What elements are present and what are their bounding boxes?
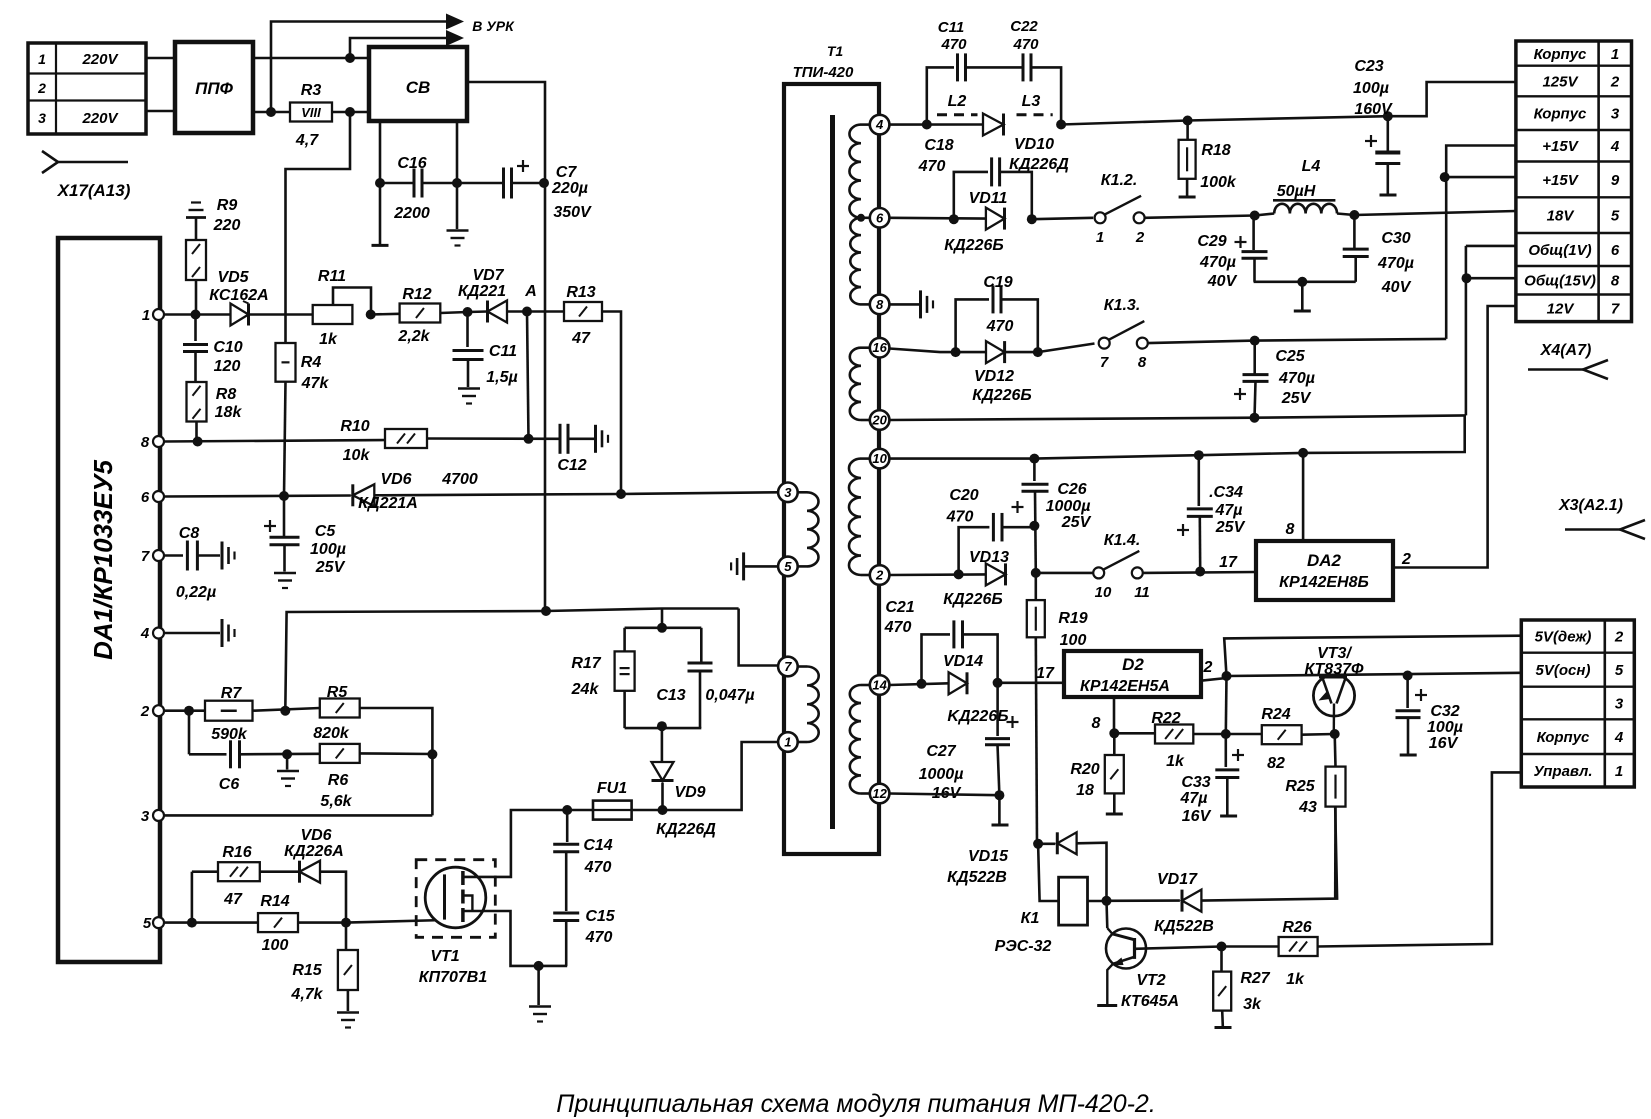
- svg-text:РЭС-32: РЭС-32: [995, 938, 1052, 955]
- transistor VT3 KT837F: [1313, 675, 1354, 716]
- svg-text:470µ: 470µ: [1199, 254, 1236, 271]
- wire VD13 to K1.4: [1036, 572, 1093, 575]
- connector X4(A7) table: [1516, 41, 1632, 322]
- svg-text:6: 6: [1611, 242, 1620, 259]
- wire SV right output down to node rail: [467, 82, 545, 611]
- wire R10 to C12: [427, 437, 560, 440]
- svg-text:C18: C18: [924, 137, 953, 154]
- connector X3(A2.1) table: [1521, 620, 1634, 787]
- node C25 bottom junction: [1250, 413, 1260, 423]
- node +15V pin9 tee: [1440, 172, 1450, 182]
- svg-text:КД226Б: КД226Б: [944, 237, 1003, 254]
- svg-text:FU1: FU1: [597, 780, 627, 797]
- svg-text:КР142ЕН8Б: КР142ЕН8Б: [1279, 574, 1369, 591]
- svg-text:100µ: 100µ: [310, 541, 346, 558]
- svg-text:R26: R26: [1282, 919, 1311, 936]
- svg-text:DA2: DA2: [1307, 551, 1342, 570]
- svg-text:125V: 125V: [1542, 74, 1579, 91]
- svg-text:5V(деж): 5V(деж): [1535, 629, 1592, 646]
- node VD15 junction: [1033, 839, 1043, 849]
- svg-text:C23: C23: [1354, 58, 1383, 75]
- capacitor C11 1.5u: [466, 312, 469, 347]
- node C19 left junction: [951, 347, 961, 357]
- connector X3 plug symbol: [1565, 528, 1620, 531]
- T1 pin 16: [870, 338, 890, 358]
- svg-text:ТПИ-420: ТПИ-420: [793, 64, 854, 81]
- wire VD14 to D2: [998, 681, 1064, 684]
- node relay/VT2 junction: [1102, 896, 1112, 906]
- svg-text:470: 470: [585, 929, 613, 946]
- wire pin8 to sideways ground: [889, 303, 919, 306]
- T1 secondary winding 4-6-8: [861, 123, 870, 126]
- node C27 bottom junction: [994, 790, 1004, 800]
- wire R12 to VD7: [440, 312, 467, 313]
- svg-text:160V: 160V: [1354, 101, 1393, 118]
- DA1 IC box KR1033EU5: [58, 238, 160, 962]
- svg-text:4: 4: [1610, 138, 1620, 155]
- inductor L4: [1255, 214, 1275, 216]
- capacitor C21 snubber: [922, 634, 951, 683]
- svg-text:R20: R20: [1070, 761, 1099, 778]
- svg-text:220: 220: [213, 217, 241, 234]
- svg-text:DA1/КР1033ЕУ5: DA1/КР1033ЕУ5: [88, 460, 118, 660]
- svg-text:1: 1: [1615, 763, 1623, 780]
- resistor R16: [218, 862, 260, 881]
- resistor R3: [290, 103, 332, 122]
- VT1 source wire: [463, 911, 567, 966]
- svg-text:X3(А2.1): X3(А2.1): [1558, 497, 1623, 514]
- svg-text:100: 100: [262, 937, 289, 954]
- capacitor C22 bypass: [1022, 53, 1025, 81]
- resistor R26: [1222, 945, 1279, 948]
- wire L4 to 18V pin: [1354, 211, 1516, 215]
- node C18 junction: [922, 120, 932, 130]
- wire pin6 row right: [889, 217, 986, 220]
- wire pin12 row: [889, 794, 999, 796]
- svg-text:К1.3.: К1.3.: [1104, 297, 1141, 314]
- wire pin1 row: [164, 313, 231, 316]
- wire 5Vosn rail: [1227, 673, 1522, 676]
- resistor R10: [385, 429, 427, 448]
- svg-text:.C34: .C34: [1209, 484, 1243, 501]
- svg-text:C11: C11: [489, 343, 517, 360]
- node VD12 right junction: [1033, 347, 1043, 357]
- node A: [522, 307, 532, 317]
- svg-text:220µ: 220µ: [551, 180, 588, 197]
- wire D2 output: [1201, 678, 1227, 681]
- svg-text:3: 3: [1611, 106, 1620, 123]
- svg-text:VD11: VD11: [969, 190, 1008, 207]
- svg-text:КТ837Ф: КТ837Ф: [1305, 661, 1365, 678]
- node R3 left junction: [266, 107, 276, 117]
- svg-text:СВ: СВ: [406, 78, 431, 97]
- node Obshch 15V tee: [1462, 273, 1472, 283]
- T1 pin 20: [870, 410, 890, 430]
- pin 5 of DA1: [153, 917, 164, 928]
- svg-text:C20: C20: [949, 487, 978, 504]
- T1 secondary winding 10-2: [861, 457, 870, 460]
- svg-text:12V: 12V: [1547, 301, 1576, 318]
- inductor L3 dashed: [1017, 113, 1053, 116]
- svg-text:C5: C5: [315, 523, 337, 540]
- pin 8 of DA1: [153, 436, 164, 447]
- svg-text:C7: C7: [556, 164, 578, 181]
- svg-text:R19: R19: [1058, 610, 1087, 627]
- svg-text:L3: L3: [1022, 93, 1041, 110]
- svg-text:8: 8: [1092, 715, 1101, 732]
- svg-text:2: 2: [875, 568, 884, 583]
- capacitor C8: [164, 554, 183, 557]
- svg-text:VD12: VD12: [974, 368, 1014, 385]
- resistor R20: [1105, 755, 1124, 793]
- wire DA2 pin8 riser: [1298, 448, 1308, 458]
- svg-text:470: 470: [918, 158, 946, 175]
- node D2 output junction: [1222, 671, 1232, 681]
- svg-text:20: 20: [871, 413, 887, 428]
- resistor R4: [276, 343, 296, 382]
- wire pin6 row to xfmr pin3: [164, 496, 351, 497]
- svg-text:8: 8: [1286, 521, 1295, 538]
- wire DA2 output 2 to 12V pin: [1393, 306, 1516, 568]
- resistor R18: [1186, 121, 1189, 140]
- svg-text:470: 470: [1012, 36, 1039, 53]
- chassis bar under C16 left: [379, 183, 382, 244]
- svg-text:C30: C30: [1381, 230, 1410, 247]
- svg-text:9: 9: [1611, 172, 1620, 189]
- diode VD17 KD522V: [1107, 899, 1180, 902]
- svg-text:Корпус: Корпус: [1534, 106, 1587, 123]
- switch contact K1.2: [1095, 212, 1106, 223]
- svg-text:82: 82: [1267, 755, 1285, 772]
- wire R13 down to xfmr pin3 row: [602, 312, 621, 495]
- svg-text:ППФ: ППФ: [195, 79, 233, 98]
- resistor R17: [623, 628, 626, 652]
- svg-text:C27: C27: [926, 743, 956, 760]
- svg-text:VT2: VT2: [1136, 972, 1165, 989]
- node VD9 bottom junction: [658, 805, 668, 815]
- node R27 junction: [1217, 942, 1227, 952]
- svg-text:1000µ: 1000µ: [1046, 498, 1091, 515]
- wire to VT1 gate: [346, 920, 445, 923]
- svg-text:VD5: VD5: [217, 269, 249, 286]
- ground above R9 (inverted): [191, 201, 201, 203]
- svg-text:R9: R9: [217, 197, 238, 214]
- node D2 pin8 junction: [1113, 697, 1116, 733]
- block PPF mains filter: [175, 42, 253, 133]
- svg-text:40V: 40V: [1207, 273, 1238, 290]
- svg-text:КД221: КД221: [458, 283, 506, 300]
- svg-text:350V: 350V: [553, 204, 592, 221]
- capacitor C19 snubber: [956, 299, 989, 352]
- node R7/R5 junction: [280, 706, 290, 716]
- svg-text:8: 8: [1138, 354, 1147, 371]
- node VD14 right junction: [993, 678, 1003, 688]
- C29/C30 ground rail: [1254, 280, 1356, 283]
- svg-text:VD15: VD15: [968, 848, 1009, 865]
- capacitor C26 electrolytic: [1029, 454, 1039, 464]
- capacitor C20 snubber: [959, 527, 990, 574]
- wire pin4 row: [889, 123, 983, 126]
- wire pin3 row: [164, 814, 432, 817]
- resistor R8: [187, 382, 207, 422]
- svg-text:Общ(1V): Общ(1V): [1528, 242, 1591, 259]
- svg-text:1000µ: 1000µ: [919, 766, 964, 783]
- svg-text:C32: C32: [1430, 703, 1459, 720]
- svg-text:4: 4: [875, 117, 884, 132]
- svg-text:C19: C19: [983, 274, 1012, 291]
- wire VD17 to R25 bottom: [1201, 807, 1337, 901]
- resistor R22: [1114, 732, 1155, 735]
- VT1 body tap: [463, 896, 473, 912]
- node C23 junction: [1383, 111, 1393, 121]
- svg-text:4700: 4700: [441, 471, 478, 488]
- svg-text:C11: C11: [938, 19, 964, 36]
- svg-text:4,7k: 4,7k: [290, 986, 323, 1003]
- T1 pin 3: [778, 483, 798, 503]
- svg-text:КД522В: КД522В: [947, 869, 1007, 886]
- svg-text:2,2k: 2,2k: [397, 328, 430, 345]
- wire pin2 node up to rail: [285, 611, 546, 711]
- wire VD12 to K1.3: [1038, 344, 1095, 353]
- diode VD15 KD522V: [1038, 842, 1055, 845]
- svg-text:7: 7: [141, 548, 150, 565]
- wire pin4 row to R18/C23: [1061, 82, 1516, 125]
- svg-text:R8: R8: [216, 386, 237, 403]
- wire pin2 row right: [889, 573, 985, 576]
- svg-text:5,6k: 5,6k: [320, 793, 352, 810]
- capacitor C34: [1194, 450, 1204, 460]
- svg-text:220V: 220V: [81, 51, 119, 68]
- wire D2 out up to 5Vdezh rail: [1224, 636, 1521, 676]
- rail from node to pin7/pin2 vertical: [546, 609, 739, 612]
- wire VD11 to switch K1.2: [1032, 218, 1093, 219]
- wire K1.4 to DA2 pin17: [1143, 571, 1256, 575]
- svg-text:0,047µ: 0,047µ: [705, 687, 754, 704]
- svg-text:L2: L2: [948, 93, 967, 110]
- svg-text:40V: 40V: [1381, 279, 1412, 296]
- T1 pin 5: [778, 557, 798, 577]
- sideways ground at pin4: [221, 619, 224, 647]
- sideways ground after C12: [594, 425, 597, 453]
- svg-text:7: 7: [1611, 301, 1620, 318]
- svg-text:7: 7: [784, 659, 792, 674]
- node PPF top output junction: [345, 53, 355, 63]
- svg-text:24k: 24k: [571, 681, 600, 698]
- svg-text:2: 2: [1614, 629, 1624, 646]
- wire pin20 rail: [889, 415, 1466, 420]
- wire pin14 row: [889, 683, 948, 685]
- svg-text:C12: C12: [557, 457, 586, 474]
- svg-text:220V: 220V: [81, 110, 119, 127]
- svg-text:18V: 18V: [1547, 208, 1576, 225]
- svg-text:43: 43: [1298, 799, 1317, 816]
- pin 3 of DA1: [153, 810, 164, 821]
- wire to URK arrow 2: [350, 38, 448, 58]
- svg-text:VD14: VD14: [943, 653, 983, 670]
- svg-text:C29: C29: [1197, 233, 1226, 250]
- svg-text:R6: R6: [328, 772, 349, 789]
- svg-text:R22: R22: [1151, 710, 1180, 727]
- svg-text:R17: R17: [571, 655, 601, 672]
- T1 pin 8: [870, 295, 890, 315]
- svg-text:11: 11: [1134, 584, 1150, 601]
- transformer T1 outline: [784, 84, 879, 854]
- switch contact K1.4: [1093, 567, 1104, 578]
- pin 1 of DA1: [153, 309, 164, 320]
- IC D2 KR142EN5A: [1064, 651, 1201, 697]
- diode VD12 KD226B: [986, 341, 1005, 363]
- resistor R12: [400, 304, 441, 323]
- svg-text:VD7: VD7: [472, 267, 504, 284]
- wire VD5 to R11: [249, 313, 313, 316]
- diode VD6 KD221A: [353, 484, 375, 506]
- svg-text:100: 100: [1060, 632, 1087, 649]
- svg-text:18: 18: [1076, 782, 1094, 799]
- svg-text:R10: R10: [340, 418, 369, 435]
- switch contact K1.3: [1099, 338, 1110, 349]
- svg-text:120: 120: [214, 358, 241, 375]
- svg-text:+15V: +15V: [1542, 172, 1579, 189]
- node R11/R12 junction: [366, 310, 376, 320]
- svg-text:КД226Д: КД226Д: [1009, 156, 1069, 173]
- diode VD6 KD226A: [300, 861, 321, 883]
- svg-text:47k: 47k: [301, 375, 330, 392]
- wire R3 to SV: [332, 111, 369, 114]
- svg-text:VD6: VD6: [380, 471, 411, 488]
- wire node A down: [527, 312, 529, 439]
- capacitor C29 electrolytic: [1252, 216, 1255, 251]
- svg-text:3: 3: [38, 110, 46, 126]
- wire X17 to PPF row3: [146, 110, 175, 113]
- wire SV bottom stub left: [379, 121, 382, 183]
- svg-text:47: 47: [223, 891, 243, 908]
- resistor R13: [527, 310, 564, 313]
- T1 pin 14: [870, 675, 890, 695]
- node pin3 junction: [616, 489, 626, 499]
- pin 2 of DA1: [153, 705, 164, 716]
- svg-text:C15: C15: [585, 908, 615, 925]
- svg-text:5V(осн): 5V(осн): [1536, 662, 1591, 679]
- svg-text:25V: 25V: [1281, 390, 1312, 407]
- svg-text:4,7: 4,7: [295, 132, 319, 149]
- svg-text:КД226Д: КД226Д: [656, 821, 716, 838]
- wire VD9 node to xfmr pin1: [663, 742, 779, 810]
- resistor R9: [195, 218, 198, 241]
- VT1 drain wire: [463, 810, 567, 877]
- svg-text:1: 1: [142, 307, 150, 324]
- svg-text:VIII: VIII: [301, 105, 321, 120]
- capacitor C10: [194, 315, 197, 342]
- node VD13 right junction: [1031, 568, 1041, 578]
- svg-text:2: 2: [1610, 74, 1620, 91]
- svg-text:КД221А: КД221А: [358, 495, 418, 512]
- svg-text:KД226Б: KД226Б: [947, 708, 1008, 725]
- C13 bottom rail: [625, 727, 702, 730]
- node VD9 top junction: [657, 721, 667, 731]
- svg-text:R16: R16: [222, 844, 251, 861]
- transistor VT1 circle: [425, 867, 486, 928]
- svg-text:470: 470: [940, 36, 967, 53]
- svg-text:16: 16: [872, 340, 887, 355]
- potentiometer R11: [313, 305, 353, 324]
- capacitor C13: [700, 628, 703, 662]
- VT1 gate bar: [443, 874, 446, 919]
- node VD7/C11 junction: [463, 307, 473, 317]
- T1 secondary winding 16-20: [861, 346, 870, 349]
- svg-text:C13: C13: [656, 687, 685, 704]
- T1 pin 10: [870, 449, 890, 469]
- svg-text:В УРК: В УРК: [472, 18, 515, 34]
- svg-text:C8: C8: [179, 525, 200, 542]
- svg-text:3: 3: [784, 485, 792, 500]
- transformer T1 core: [830, 115, 835, 829]
- resistor R7: [205, 701, 253, 721]
- svg-text:R11: R11: [318, 268, 346, 285]
- svg-text:470: 470: [884, 619, 912, 636]
- svg-text:К1: К1: [1021, 910, 1040, 927]
- capacitor C32 electrolytic: [1406, 676, 1409, 709]
- capacitor C5 electrolytic: [283, 496, 286, 537]
- wire X17 to PPF row1: [146, 57, 175, 60]
- svg-text:VD13: VD13: [969, 549, 1009, 566]
- svg-text:470µ: 470µ: [1377, 255, 1414, 272]
- svg-text:2: 2: [140, 703, 150, 720]
- wire PPF output bottom: [253, 111, 290, 114]
- svg-text:C33: C33: [1181, 774, 1210, 791]
- resistor R17 and C13 top rail: [661, 609, 664, 628]
- svg-text:Корпус: Корпус: [1534, 46, 1587, 63]
- node C25 top junction: [1250, 336, 1260, 346]
- wire R5 right down to R6: [360, 708, 433, 815]
- svg-text:VD10: VD10: [1014, 136, 1054, 153]
- node source/ground junction: [534, 961, 544, 971]
- svg-text:470: 470: [946, 509, 974, 526]
- winding tap dot at pin6: [857, 214, 865, 222]
- node R22/C33/R24 junction: [1221, 729, 1231, 739]
- node FU1 left junction: [562, 805, 572, 815]
- svg-text:C6: C6: [219, 776, 240, 793]
- node R9/C10 junction: [191, 310, 201, 320]
- svg-text:VD6: VD6: [300, 827, 331, 844]
- wire PPF output top: [253, 57, 369, 60]
- svg-text:R7: R7: [221, 685, 243, 702]
- node L4 right junction: [1349, 210, 1359, 220]
- svg-text:1: 1: [1611, 46, 1619, 63]
- svg-text:2: 2: [1401, 551, 1411, 568]
- T1 pin 7: [778, 657, 798, 677]
- svg-text:17: 17: [1036, 665, 1055, 682]
- svg-text:3: 3: [141, 808, 150, 825]
- svg-text:1: 1: [784, 735, 791, 750]
- node R4 bottom junction: [279, 491, 289, 501]
- svg-text:5: 5: [1615, 662, 1624, 679]
- svg-text:8: 8: [876, 297, 884, 312]
- svg-text:5: 5: [143, 915, 152, 932]
- node VD13 left junction: [954, 569, 964, 579]
- pin 4 of DA1: [153, 628, 164, 639]
- svg-text:16V: 16V: [1182, 808, 1212, 825]
- ground under VT2 emitter: [1097, 1004, 1117, 1007]
- svg-text:R27: R27: [1240, 970, 1270, 987]
- svg-text:VT3/: VT3/: [1317, 645, 1352, 662]
- svg-text:C26: C26: [1057, 481, 1086, 498]
- capacitor C30: [1353, 215, 1356, 248]
- wire R3 node down-jog to R4 line: [286, 112, 351, 343]
- svg-text:8: 8: [141, 434, 150, 451]
- pin 6 of DA1: [153, 491, 164, 502]
- diode VD14 KD226B: [949, 672, 967, 694]
- svg-text:C10: C10: [213, 339, 242, 356]
